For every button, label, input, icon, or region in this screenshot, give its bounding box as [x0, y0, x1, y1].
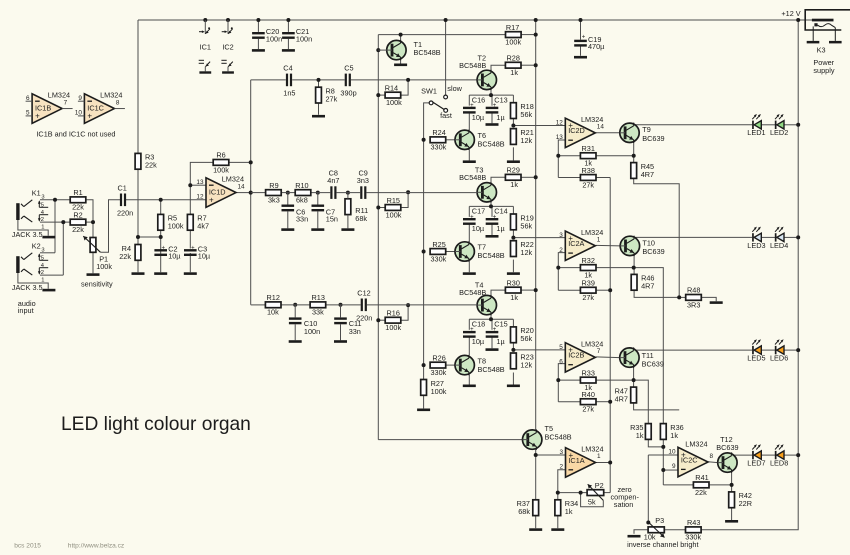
resistor R11	[345, 199, 368, 223]
svg-text:27k: 27k	[582, 180, 594, 189]
svg-text:100k: 100k	[168, 222, 184, 231]
svg-text:1k: 1k	[510, 68, 518, 77]
capacitor C3	[184, 244, 211, 260]
ground R27	[417, 409, 430, 412]
transistor T8	[455, 355, 474, 375]
ground R11	[341, 228, 354, 231]
svg-text:100n: 100n	[304, 327, 320, 336]
resistor R27	[421, 379, 447, 396]
svg-text:C13: C13	[494, 95, 507, 104]
ground R37	[529, 528, 542, 531]
node R15 right	[406, 190, 410, 194]
svg-text:27k: 27k	[326, 95, 338, 104]
node R6 right	[249, 160, 253, 164]
wire C1 to IC1D pin12	[126, 199, 206, 201]
wire T11 emitter	[633, 367, 635, 380]
svg-text:1: 1	[597, 236, 601, 243]
svg-text:100k: 100k	[505, 38, 521, 47]
resistor R23	[511, 352, 534, 369]
IC1 power pin	[199, 20, 210, 34]
svg-text:5: 5	[41, 203, 44, 209]
wire T6 base	[446, 139, 455, 141]
node T12 emitter	[730, 483, 734, 487]
svg-text:C5: C5	[344, 63, 353, 72]
node C2 tap	[159, 235, 163, 239]
svg-text:8: 8	[710, 453, 714, 460]
wire R47 upper	[633, 380, 635, 387]
svg-text:LM324: LM324	[581, 228, 603, 237]
resistor R42	[729, 491, 752, 508]
wire R8 lower lead	[318, 103, 320, 115]
label C7	[326, 207, 338, 223]
wire T8 base	[446, 364, 455, 366]
wire band3 line a	[251, 304, 266, 306]
wire IC1D output bus	[250, 80, 252, 305]
label T7	[478, 243, 505, 261]
label C11	[349, 319, 362, 336]
resistor R8	[316, 87, 338, 104]
node R8 tap	[317, 78, 321, 82]
wire P1 wiper to C1	[100, 200, 120, 252]
wire R20 upper	[512, 319, 514, 327]
transistor T7	[455, 241, 474, 261]
wire T8 emitter	[468, 375, 470, 385]
svg-text:22k: 22k	[695, 488, 707, 497]
wire R1 to R2 junction	[86, 200, 93, 222]
svg-text:bcs 2015: bcs 2015	[14, 542, 41, 549]
resistor R18	[511, 102, 534, 119]
LED LED4	[770, 227, 788, 250]
svg-text:4n7: 4n7	[327, 176, 339, 185]
wire K2 tip	[40, 252, 55, 254]
wire +12V collector bus	[535, 20, 537, 430]
capacitor C6	[282, 205, 295, 212]
node rail C19	[579, 18, 583, 22]
svg-text:R40: R40	[582, 390, 595, 399]
node R32 bus	[556, 266, 560, 270]
svg-text:3: 3	[41, 194, 44, 200]
wire R28 right	[521, 64, 536, 66]
wire IC2C pin9	[663, 469, 678, 471]
svg-text:10µ: 10µ	[472, 113, 485, 122]
capacitor C11	[334, 317, 347, 324]
wire R45 return	[634, 178, 680, 297]
node R25 tap	[422, 250, 426, 254]
wire R19 upper	[512, 206, 514, 214]
wire R11 lower lead	[347, 215, 349, 229]
label C14	[494, 207, 507, 234]
resistor R9	[266, 181, 282, 205]
svg-text:LM324: LM324	[48, 91, 70, 100]
wire T1 collector to R17	[401, 34, 506, 36]
wire LED4 to +12V bus	[784, 236, 798, 238]
wire C3 to ground	[189, 253, 191, 272]
svg-text:8: 8	[116, 99, 120, 106]
svg-text:LED2: LED2	[770, 128, 788, 137]
LED LED8	[770, 444, 788, 467]
label C16	[472, 95, 485, 122]
svg-text:BC639: BC639	[642, 247, 664, 256]
ground R42	[725, 520, 738, 523]
wire +12V to R43	[701, 455, 798, 530]
wire R19 lower	[512, 230, 514, 238]
wire C6 upper lead	[287, 193, 289, 205]
svg-text:56k: 56k	[520, 334, 532, 343]
wire IC1A pin2 branch	[558, 470, 566, 500]
wire summing bus	[609, 178, 611, 493]
wire +12V top rail	[138, 19, 798, 21]
svg-text:R13: R13	[312, 293, 325, 302]
wire R3 bias branch	[137, 20, 139, 237]
capacitor C5	[340, 63, 356, 97]
node C6 tap	[286, 191, 290, 195]
svg-text:7: 7	[64, 99, 68, 106]
svg-text:6: 6	[559, 359, 563, 366]
resistor R16	[385, 309, 401, 333]
svg-text:1k: 1k	[510, 180, 518, 189]
wire R27 to ground	[423, 395, 425, 408]
ground R34	[551, 528, 564, 531]
LED LED3	[747, 227, 765, 250]
svg-text:LED4: LED4	[770, 241, 788, 250]
resistor R25 330k	[430, 240, 447, 264]
svg-text:BC548B: BC548B	[459, 61, 486, 70]
resistor R33	[580, 368, 596, 392]
svg-text:R15: R15	[387, 196, 400, 205]
svg-text:330k: 330k	[431, 368, 447, 377]
wire +12V LED bus	[797, 20, 799, 455]
capacitor C14 1u	[486, 214, 499, 225]
wire C7 lower lead	[317, 211, 319, 228]
resistor R26 330k	[430, 353, 447, 377]
svg-text:22R: 22R	[739, 499, 752, 508]
wire C20 branch	[257, 20, 259, 32]
ground R4	[132, 272, 145, 275]
ground C20	[252, 49, 265, 52]
node LED6 bus	[796, 348, 800, 352]
wire C15 top lead	[491, 319, 493, 330]
wire C13 to ground	[491, 113, 493, 124]
svg-text:100k: 100k	[213, 165, 229, 174]
node T3 emitter	[489, 204, 493, 208]
svg-text:100k: 100k	[431, 387, 447, 396]
op-amp IC1D	[196, 175, 245, 208]
connector K1 jack	[12, 189, 56, 240]
wire band3 line c	[326, 304, 361, 306]
node LED2 bus	[796, 123, 800, 127]
wire P3 left to ground	[634, 530, 648, 534]
node R34 tap	[556, 491, 560, 495]
wire C19 branch	[580, 20, 582, 40]
wire C7 upper lead	[317, 193, 319, 205]
svg-text:10k: 10k	[267, 308, 279, 317]
ground C21	[282, 49, 295, 52]
wire R48 right lead	[701, 297, 716, 301]
capacitor C7	[312, 205, 325, 212]
svg-text:R43: R43	[687, 518, 700, 527]
wire ring bus K1-K2	[62, 222, 64, 275]
svg-text:3R3: 3R3	[687, 300, 700, 309]
wire R37 to ground	[535, 455, 537, 528]
wire band1 junction to IC2D	[513, 125, 565, 127]
svg-text:K2: K2	[32, 242, 41, 251]
svg-text:100k: 100k	[385, 323, 401, 332]
wire R31 right	[596, 155, 634, 157]
svg-text:22k: 22k	[72, 225, 84, 234]
resistor R5	[158, 214, 184, 231]
svg-text:T5: T5	[545, 424, 554, 433]
wire C21 branch	[287, 20, 289, 32]
node R39 sum	[608, 288, 612, 292]
resistor R12	[265, 293, 281, 317]
svg-text:IC1: IC1	[200, 43, 211, 52]
svg-text:LED5: LED5	[747, 354, 765, 363]
node rail IC2	[226, 18, 230, 22]
resistor R2	[70, 210, 86, 234]
wire pin9 branch	[662, 447, 664, 485]
wire R41 to T12 emitter	[709, 484, 732, 486]
ground R22	[507, 272, 520, 275]
svg-text:R17: R17	[506, 23, 519, 32]
LED LED6	[770, 339, 788, 362]
wire R5 branch	[160, 200, 162, 237]
svg-text:R10: R10	[295, 181, 308, 190]
wire IC2A pin2 branch	[558, 253, 565, 291]
wire R48 left lead	[679, 296, 686, 298]
node P3 wiper	[646, 521, 650, 525]
wire R33 left	[558, 379, 580, 381]
svg-text:4R7: 4R7	[641, 282, 654, 291]
wire R46 upper	[633, 268, 635, 275]
wire LED7-LED8 link	[761, 454, 775, 456]
svg-text:input: input	[18, 306, 34, 315]
svg-text:6k8: 6k8	[296, 196, 308, 205]
wire R47 return	[634, 403, 680, 410]
wire pin2 to P2	[558, 492, 587, 494]
svg-text:+: +	[191, 245, 195, 251]
capacitor C1	[117, 183, 133, 217]
node R11 tap	[346, 191, 350, 195]
wire band2 junction to IC2A	[513, 237, 565, 239]
resistor R35	[630, 423, 651, 440]
svg-text:14: 14	[238, 183, 246, 190]
ground C11	[334, 340, 347, 343]
wire T12 collector to LEDs	[732, 454, 753, 457]
node R14 left	[376, 93, 380, 97]
node R48 junction	[677, 295, 681, 299]
svg-text:100n: 100n	[266, 34, 282, 43]
op-amp IC1A	[559, 445, 603, 478]
wire T10 emitter	[633, 255, 635, 267]
ground R48	[710, 301, 723, 304]
node R30 bus	[534, 288, 538, 292]
svg-text:+: +	[87, 112, 92, 121]
wire R20 lower	[512, 343, 514, 350]
wire C5 to T2 base	[351, 79, 477, 81]
ground C3	[184, 272, 197, 275]
node T10 emitter	[632, 266, 636, 270]
wire AGC bus	[377, 35, 379, 440]
LED LED7	[747, 444, 765, 467]
ground C7	[311, 228, 324, 231]
node rail T1 branch	[444, 18, 448, 22]
LED LED2	[770, 114, 788, 137]
svg-text:12k: 12k	[520, 360, 532, 369]
ground R8	[312, 115, 325, 118]
resistor R30 1k	[505, 278, 521, 302]
svg-text:2: 2	[559, 247, 563, 254]
svg-text:27k: 27k	[582, 293, 594, 302]
svg-text:LM324: LM324	[222, 175, 244, 184]
svg-text:R28: R28	[507, 54, 520, 63]
node T1 base	[376, 48, 380, 52]
wire R32 right	[596, 267, 634, 269]
svg-text:68k: 68k	[355, 214, 367, 223]
svg-text:slow: slow	[447, 84, 462, 93]
node R26 tap	[422, 363, 426, 367]
transistor T5	[523, 429, 542, 449]
node R1 R2 mix	[91, 220, 95, 224]
label C10	[304, 319, 320, 336]
resistor R24 330k	[430, 128, 447, 152]
svg-text:4R7: 4R7	[615, 394, 628, 403]
wire R38 left	[558, 177, 580, 179]
svg-text:C4: C4	[283, 63, 292, 72]
svg-text:22k: 22k	[145, 161, 157, 170]
svg-text:R26: R26	[432, 353, 445, 362]
node R24 tap	[422, 138, 426, 142]
wire C14 top lead	[491, 206, 493, 217]
label C13	[494, 95, 507, 122]
wire band2 line to T3	[367, 192, 478, 194]
wire C10 lower lead	[294, 324, 296, 340]
wire T9 collector to LEDs	[634, 125, 752, 126]
svg-text:LM324: LM324	[581, 339, 603, 348]
svg-text:+12 V: +12 V	[781, 9, 800, 18]
resistor R43	[685, 518, 701, 542]
svg-text:100k: 100k	[386, 210, 402, 219]
wire T10 emitter to R36	[634, 268, 664, 424]
svg-text:1µ: 1µ	[496, 224, 505, 233]
label C15	[494, 320, 507, 347]
wire T4 collector	[491, 290, 505, 298]
wire C11 upper lead	[340, 305, 342, 318]
svg-text:R29: R29	[507, 166, 520, 175]
node R14 right	[406, 78, 410, 82]
svg-text:330k: 330k	[685, 533, 701, 542]
wire T9 emitter	[633, 143, 635, 156]
wire LED2 to +12V bus	[784, 124, 798, 126]
wire K1 tip	[40, 199, 70, 201]
svg-text:1: 1	[597, 453, 601, 460]
resistor R47	[615, 386, 637, 403]
svg-text:R6: R6	[216, 151, 225, 160]
svg-text:BC548B: BC548B	[478, 251, 505, 260]
wire LED5-LED6 link	[761, 349, 775, 351]
svg-text:T9: T9	[642, 125, 651, 134]
op-amp IC2D	[556, 115, 605, 148]
capacitor C8	[327, 169, 339, 199]
op-amp IC2A	[559, 228, 603, 261]
wire T7 base	[446, 251, 455, 253]
wire C4 to R8	[292, 79, 318, 81]
resistor R15	[385, 196, 402, 220]
svg-text:220n: 220n	[117, 208, 133, 217]
resistor R1	[70, 188, 86, 212]
resistor R20	[511, 326, 534, 343]
ground T1	[394, 64, 407, 67]
svg-text:100k: 100k	[96, 262, 112, 271]
svg-text:220n: 220n	[356, 313, 372, 322]
svg-text:470µ: 470µ	[588, 42, 605, 51]
resistor R6	[213, 151, 229, 175]
label T9	[642, 125, 664, 143]
capacitor C4	[283, 63, 295, 97]
wire band2 line c	[311, 192, 330, 194]
resistor R32	[580, 256, 596, 280]
node LED4 bus	[796, 235, 800, 239]
svg-text:R1: R1	[73, 188, 82, 197]
wire T5 emitter	[535, 449, 537, 455]
wire IC2B pin6 branch	[558, 364, 565, 402]
resistor R7	[187, 214, 209, 231]
svg-text:56k: 56k	[520, 221, 532, 230]
capacitor C13 1u	[486, 103, 499, 114]
resistor R28 1k	[505, 54, 521, 78]
resistor R13	[310, 293, 326, 317]
svg-text:7: 7	[597, 348, 601, 355]
svg-text:+: +	[582, 35, 586, 41]
wire R33 right	[596, 379, 634, 381]
svg-text:3k3: 3k3	[268, 196, 280, 205]
capacitor C16 10u	[463, 103, 476, 114]
svg-text:R2: R2	[73, 210, 82, 219]
svg-text:IC2: IC2	[222, 43, 233, 52]
svg-text:100n: 100n	[296, 34, 312, 43]
svg-text:33n: 33n	[349, 327, 361, 336]
svg-text:JACK 3.5: JACK 3.5	[12, 230, 43, 239]
wire R16 left	[378, 319, 385, 321]
svg-text:3: 3	[41, 247, 44, 253]
wire T3 emitter	[490, 199, 492, 206]
resistor R19	[511, 213, 534, 230]
capacitor C2	[154, 244, 181, 260]
svg-text:12: 12	[196, 194, 204, 201]
wire P3 wiper riser	[647, 455, 649, 522]
node C11 tap	[339, 303, 343, 307]
wire LED8 to +12V bus	[784, 454, 798, 456]
svg-text:BC548B: BC548B	[459, 288, 486, 297]
svg-text:LED7: LED7	[747, 459, 765, 468]
svg-text:C15: C15	[494, 320, 507, 329]
node T11 emitter	[632, 378, 636, 382]
svg-text:IC1C: IC1C	[87, 103, 104, 112]
svg-text:15n: 15n	[326, 215, 338, 224]
wire R30 right	[521, 289, 536, 291]
resistor R45	[631, 162, 654, 179]
wire R6 feedback	[190, 162, 213, 185]
wire AGC top link	[378, 34, 400, 36]
wire C19 to ground	[580, 46, 582, 56]
resistor R40	[580, 390, 596, 414]
wire band1 emitter line	[469, 94, 513, 96]
label T2	[459, 54, 486, 70]
capacitor C21	[282, 27, 312, 43]
label C18	[472, 320, 485, 347]
svg-text:R33: R33	[582, 368, 595, 377]
transistor T3	[477, 182, 496, 202]
svg-text:5: 5	[41, 256, 44, 262]
